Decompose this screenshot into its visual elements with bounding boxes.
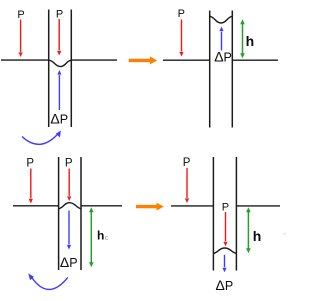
svg-text:P: P	[178, 8, 185, 20]
svg-text:h: h	[253, 228, 262, 244]
svg-text:P: P	[183, 157, 191, 169]
svg-text:ΔP: ΔP	[216, 277, 234, 293]
svg-text:P: P	[17, 9, 24, 21]
svg-text:h: h	[97, 228, 104, 242]
svg-text:P: P	[222, 202, 229, 214]
svg-text:h: h	[246, 33, 255, 49]
svg-text:ΔP: ΔP	[50, 111, 68, 127]
svg-text:P: P	[26, 158, 34, 170]
svg-text:ΔP: ΔP	[214, 49, 232, 65]
svg-text:P: P	[65, 158, 73, 170]
svg-text:c: c	[105, 233, 109, 242]
svg-text:ΔP: ΔP	[60, 254, 78, 270]
svg-text:P: P	[56, 9, 63, 21]
